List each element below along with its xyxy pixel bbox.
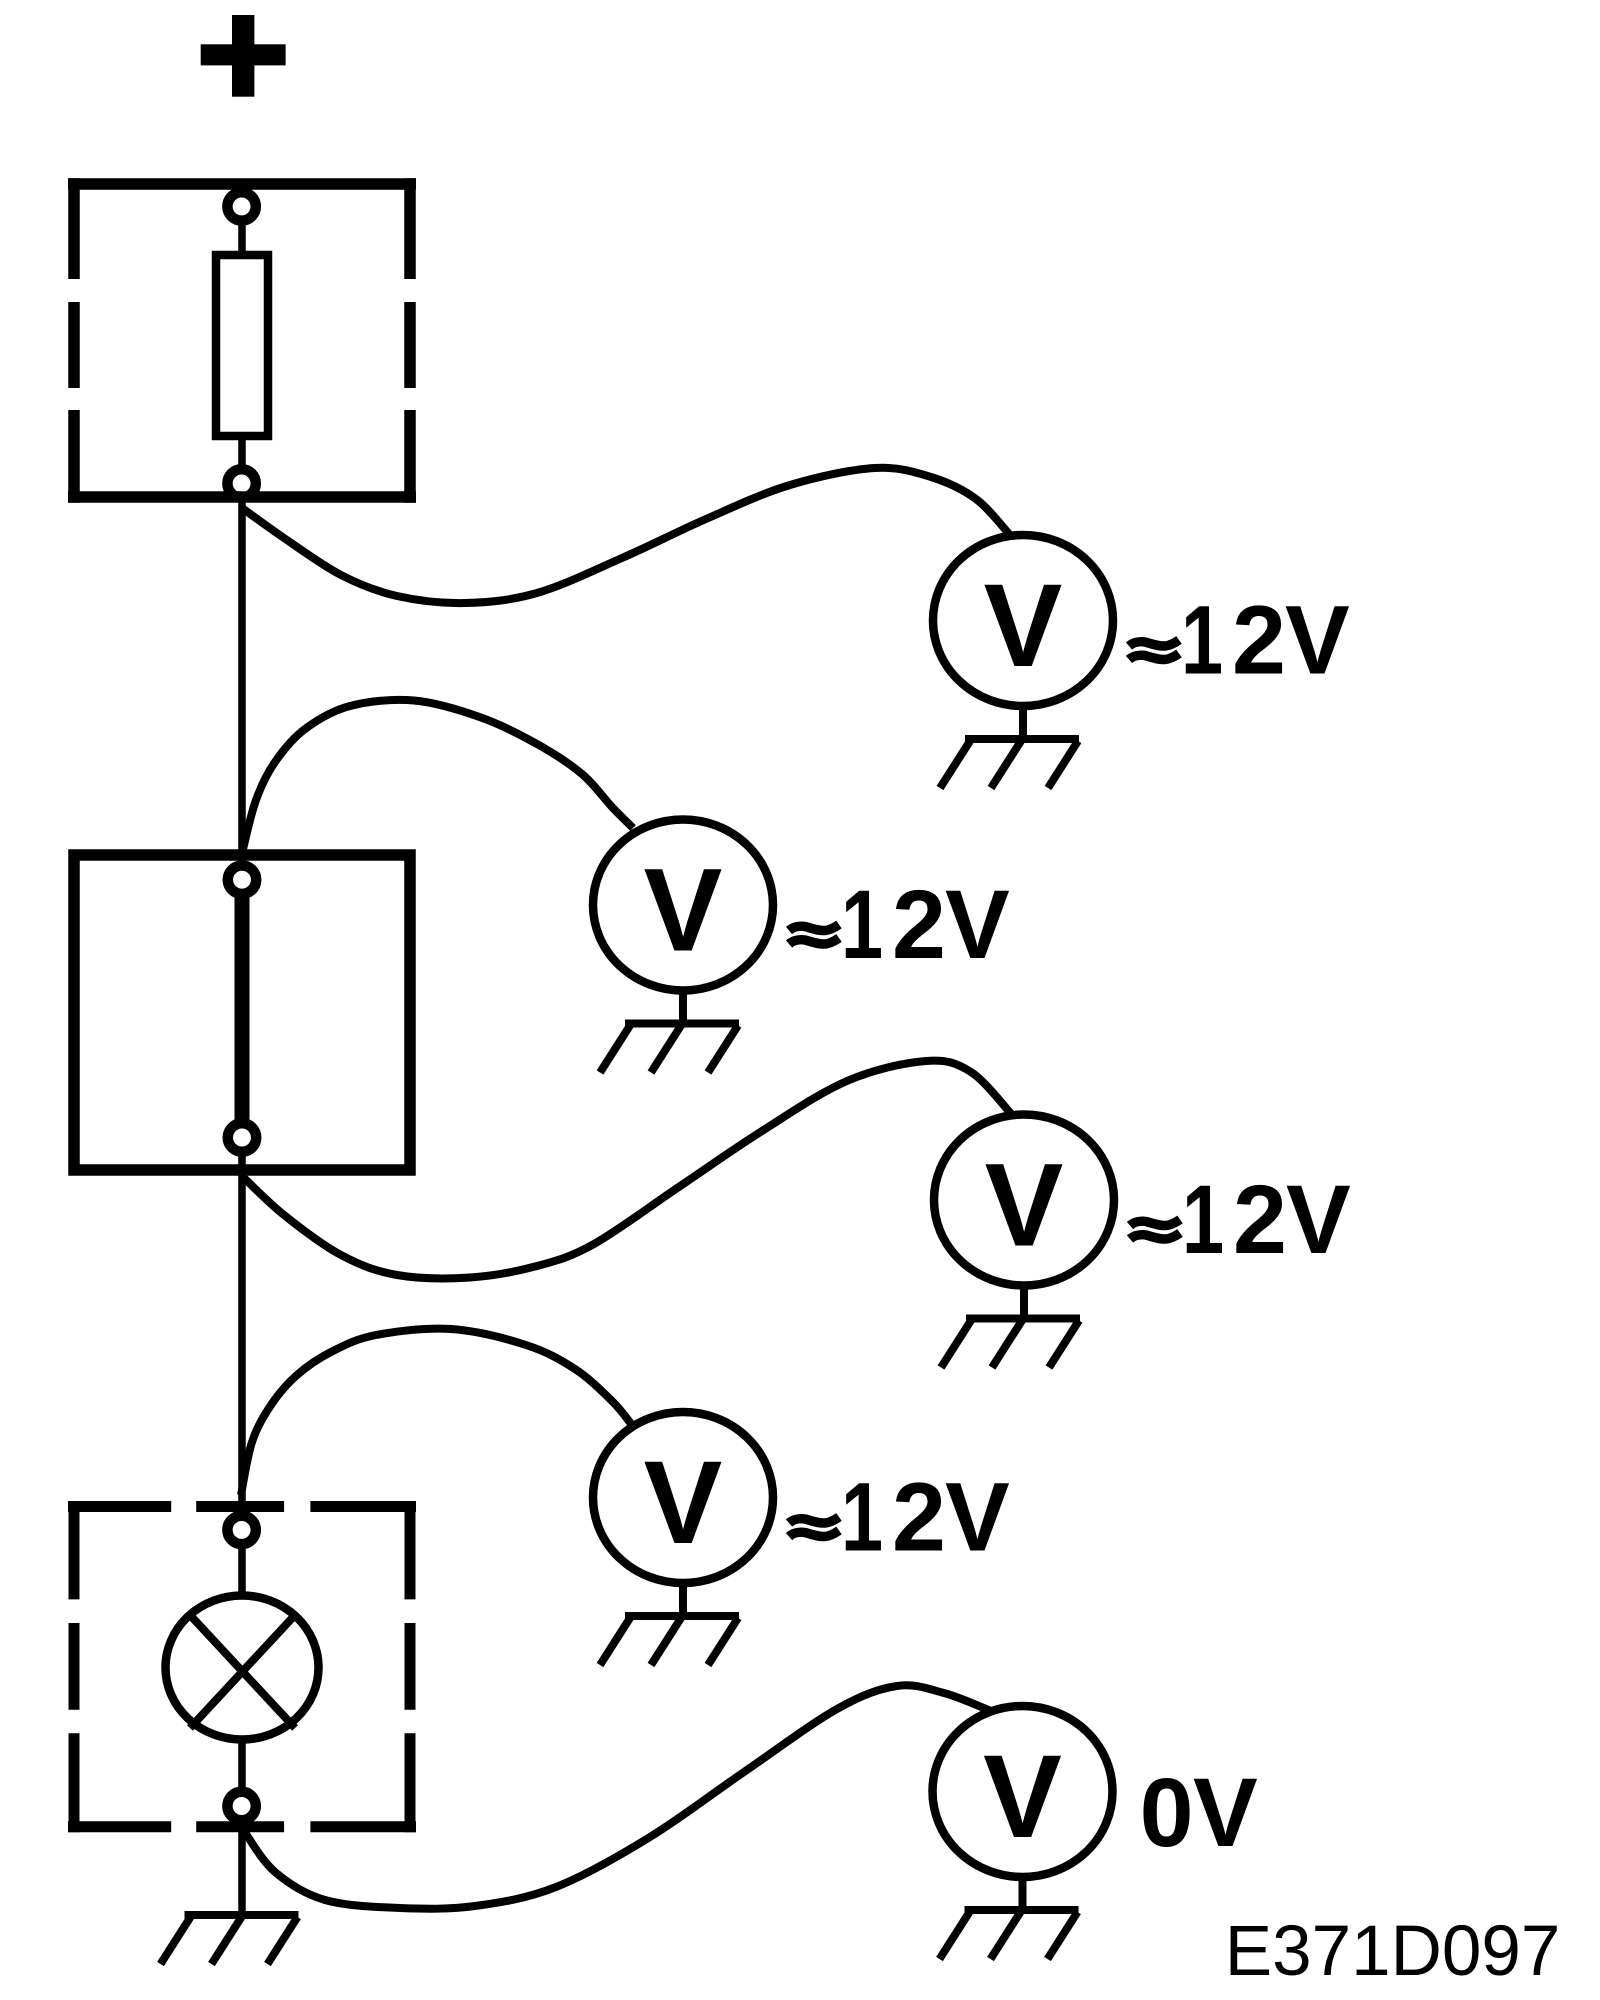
- wire: switch box to lamp box: [238, 1170, 246, 1512]
- closed switch contact bar: [235, 896, 250, 1121]
- svg-text:1: 1: [841, 1464, 883, 1572]
- svg-text:V: V: [984, 560, 1063, 692]
- terminal pin (fuse top): [227, 192, 255, 220]
- svg-text:0: 0: [1140, 1758, 1194, 1867]
- measuring wire: switch output node to voltmeter V3: [242, 1061, 1013, 1279]
- chassis ground (voltmeter V5): [940, 1910, 1079, 1959]
- wire: voltmeter V5 to ground: [1019, 1877, 1027, 1911]
- svg-text:2: 2: [1233, 1165, 1287, 1274]
- svg-text:V: V: [1285, 586, 1350, 695]
- svg-text:2: 2: [892, 870, 946, 979]
- wire: pin to lamp: [238, 1544, 246, 1595]
- terminal pin (switch top): [228, 866, 256, 894]
- svg-text:V: V: [644, 1437, 723, 1569]
- wire: voltmeter V2 to ground: [679, 991, 687, 1025]
- measuring wire: switch input node to voltmeter V2: [243, 700, 633, 849]
- terminal pin (lamp bottom): [227, 1792, 255, 1820]
- wire: voltmeter V3 to ground: [1020, 1286, 1028, 1320]
- voltmeter V3 body: [934, 1115, 1114, 1286]
- wire: switch bottom pin to box edge: [238, 1152, 246, 1172]
- battery positive terminal (+) symbol: [201, 15, 286, 97]
- solid component box: switch: [74, 855, 410, 1170]
- svg-text:V: V: [985, 1140, 1064, 1272]
- measuring wire: lamp input node to voltmeter V4: [241, 1329, 632, 1495]
- terminal pin (switch bottom): [228, 1123, 256, 1151]
- approx-equals sign of V-label (1129,1232): [1130, 1220, 1180, 1240]
- terminal pin (fuse bottom): [227, 469, 255, 497]
- value label 12V: [841, 1463, 1010, 1572]
- measuring wire: fuse output node to voltmeter V1: [242, 468, 1010, 603]
- wire: voltmeter V4 to ground: [679, 1583, 687, 1617]
- chassis ground (main circuit): [161, 1915, 299, 1964]
- voltmeter V2 body: [593, 820, 773, 991]
- svg-text:V: V: [1286, 1165, 1351, 1274]
- value label 0V: [1140, 1758, 1258, 1867]
- value label 12V: [1182, 1165, 1351, 1274]
- chassis ground (voltmeter V4): [600, 1616, 739, 1665]
- value label 12V: [841, 870, 1010, 979]
- svg-text:E371D097: E371D097: [1225, 1912, 1561, 1991]
- chassis ground (voltmeter V1): [940, 739, 1079, 788]
- svg-text:V: V: [983, 1731, 1062, 1863]
- wire: pin to fuse element: [238, 220, 246, 256]
- wire: box edge to fuse top pin: [238, 184, 246, 195]
- svg-text:V: V: [1193, 1758, 1258, 1867]
- approx-equals sign of V-label (788,937): [789, 925, 839, 945]
- dashed component box: lamp holder: [68, 1501, 416, 1832]
- approx-equals sign of V-label (1128,652.5): [1129, 640, 1179, 660]
- dashed component box: fuse holder: [68, 178, 416, 502]
- svg-text:V: V: [945, 1463, 1010, 1572]
- svg-text:2: 2: [1232, 586, 1286, 695]
- wire: lamp box to circuit ground: [238, 1822, 246, 1913]
- svg-text:1: 1: [1181, 587, 1223, 695]
- voltmeter V5 body: [933, 1706, 1113, 1877]
- terminal pin (lamp top): [227, 1516, 255, 1544]
- measuring wire: lamp ground node to voltmeter V5: [244, 1685, 991, 1908]
- svg-text:2: 2: [892, 1463, 946, 1572]
- svg-text:V: V: [945, 870, 1010, 979]
- chassis ground (voltmeter V2): [600, 1024, 739, 1073]
- wire: fuse box to switch box (node A junction at top): [238, 497, 246, 861]
- svg-text:1: 1: [841, 871, 883, 979]
- wire: lamp to bottom pin: [238, 1740, 246, 1792]
- voltmeter V4 body: [593, 1412, 773, 1583]
- approx-equals sign of V-label (788,1529.5): [789, 1517, 839, 1537]
- lamp bulb symbol (circle with X): [166, 1596, 319, 1740]
- value label 12V: [1181, 586, 1350, 695]
- svg-text:1: 1: [1182, 1166, 1224, 1274]
- fuse element (resistor rectangle): [216, 255, 268, 436]
- svg-text:V: V: [644, 845, 723, 977]
- wire: fuse element to bottom pin: [238, 436, 246, 470]
- wire: voltmeter V1 to ground: [1019, 706, 1027, 740]
- chassis ground (voltmeter V3): [941, 1319, 1080, 1368]
- voltmeter V1 body: [933, 535, 1113, 706]
